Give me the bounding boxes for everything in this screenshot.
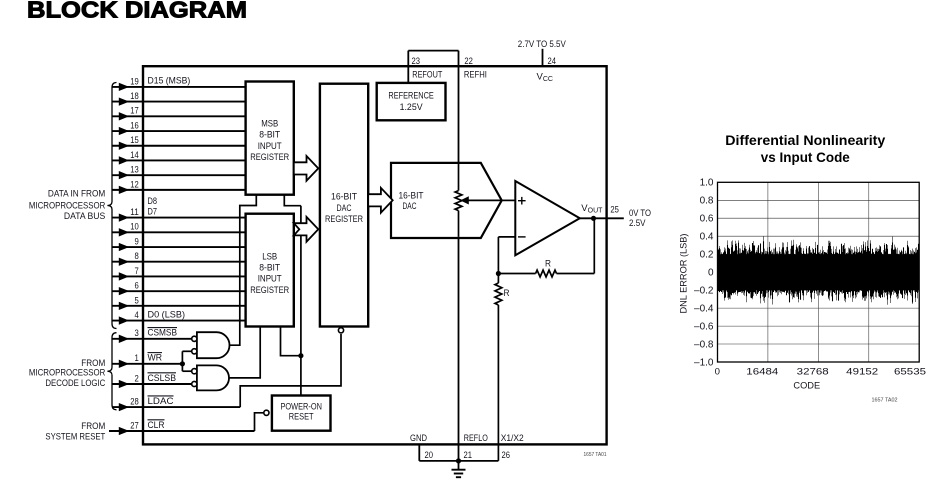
svg-text:5: 5 xyxy=(135,295,139,306)
svg-text:WR: WR xyxy=(148,353,163,364)
svg-text:0: 0 xyxy=(708,268,714,279)
svg-text:11: 11 xyxy=(130,207,139,218)
svg-text:vs Input Code: vs Input Code xyxy=(761,149,850,165)
svg-text:1.0: 1.0 xyxy=(700,178,714,189)
svg-text:REFLO: REFLO xyxy=(464,433,488,444)
svg-text:32768: 32768 xyxy=(797,367,829,378)
svg-text:8: 8 xyxy=(135,251,139,262)
svg-text:D7: D7 xyxy=(148,206,158,217)
svg-text:–0.4: –0.4 xyxy=(694,303,714,314)
svg-text:BLOCK DIAGRAM: BLOCK DIAGRAM xyxy=(27,0,247,23)
svg-text:65535: 65535 xyxy=(894,367,926,378)
svg-text:21: 21 xyxy=(464,450,473,461)
svg-text:12: 12 xyxy=(130,179,139,190)
svg-text:REFHI: REFHI xyxy=(464,70,487,81)
svg-text:R: R xyxy=(545,259,551,270)
svg-text:–0.8: –0.8 xyxy=(694,339,714,350)
svg-text:0.8: 0.8 xyxy=(700,196,714,207)
svg-text:CSLSB: CSLSB xyxy=(148,373,177,384)
svg-text:CLR: CLR xyxy=(148,420,165,431)
svg-text:DAC: DAC xyxy=(337,203,352,214)
svg-text:LDAC: LDAC xyxy=(148,396,174,407)
svg-text:2.5V: 2.5V xyxy=(629,218,646,229)
svg-text:2.7V TO 5.5V: 2.7V TO 5.5V xyxy=(518,39,567,50)
svg-text:VCC: VCC xyxy=(537,71,553,83)
svg-text:1.25V: 1.25V xyxy=(400,102,424,113)
svg-text:24: 24 xyxy=(548,56,557,67)
svg-text:0.6: 0.6 xyxy=(700,214,714,225)
svg-text:DATA BUS: DATA BUS xyxy=(64,211,105,222)
svg-text:D0 (LSB): D0 (LSB) xyxy=(148,309,186,320)
svg-text:26: 26 xyxy=(502,450,511,461)
svg-text:Differential Nonlinearity: Differential Nonlinearity xyxy=(725,132,885,148)
svg-text:16: 16 xyxy=(130,120,139,131)
svg-text:16-BIT: 16-BIT xyxy=(398,191,423,202)
svg-text:0.4: 0.4 xyxy=(700,232,714,243)
svg-text:22: 22 xyxy=(464,56,473,67)
svg-text:DECODE LOGIC: DECODE LOGIC xyxy=(45,378,105,389)
svg-text:–0.6: –0.6 xyxy=(694,321,714,332)
svg-text:FROM: FROM xyxy=(81,421,105,432)
svg-text:15: 15 xyxy=(130,135,139,146)
svg-text:17: 17 xyxy=(130,106,139,117)
svg-text:REFOUT: REFOUT xyxy=(412,70,442,81)
svg-text:INPUT: INPUT xyxy=(258,141,282,152)
svg-text:3: 3 xyxy=(135,328,139,339)
svg-text:CODE: CODE xyxy=(793,381,820,391)
svg-text:27: 27 xyxy=(130,420,139,431)
svg-text:6: 6 xyxy=(135,281,139,292)
svg-text:8-BIT: 8-BIT xyxy=(259,263,280,274)
svg-text:25: 25 xyxy=(610,205,619,216)
svg-text:–1.0: –1.0 xyxy=(694,357,714,368)
svg-text:0.2: 0.2 xyxy=(700,250,714,261)
svg-text:X1/X2: X1/X2 xyxy=(501,433,524,444)
svg-text:49152: 49152 xyxy=(846,367,878,378)
svg-text:REFERENCE: REFERENCE xyxy=(388,91,433,102)
svg-text:14: 14 xyxy=(130,150,139,161)
svg-text:CSMSB: CSMSB xyxy=(148,328,178,339)
svg-text:2: 2 xyxy=(135,373,139,384)
svg-text:19: 19 xyxy=(130,76,139,87)
svg-text:DAC: DAC xyxy=(403,201,417,212)
svg-text:REGISTER: REGISTER xyxy=(250,152,289,163)
svg-text:REGISTER: REGISTER xyxy=(325,214,363,225)
svg-text:20: 20 xyxy=(425,450,434,461)
svg-text:4: 4 xyxy=(135,310,139,321)
svg-text:SYSTEM RESET: SYSTEM RESET xyxy=(45,432,105,443)
svg-text:13: 13 xyxy=(130,165,139,176)
svg-text:16484: 16484 xyxy=(746,367,779,378)
svg-text:GND: GND xyxy=(410,433,427,444)
svg-text:18: 18 xyxy=(130,91,139,102)
svg-text:8-BIT: 8-BIT xyxy=(259,130,280,141)
svg-text:1657 TA02: 1657 TA02 xyxy=(872,398,898,404)
svg-text:D8: D8 xyxy=(148,196,158,207)
svg-text:1657 TA01: 1657 TA01 xyxy=(584,452,607,458)
svg-text:0: 0 xyxy=(715,367,720,378)
svg-text:R: R xyxy=(504,288,510,299)
svg-text:7: 7 xyxy=(135,266,139,277)
svg-text:DATA IN FROM: DATA IN FROM xyxy=(48,189,105,200)
svg-text:LSB: LSB xyxy=(262,251,277,262)
svg-text:–0.2: –0.2 xyxy=(694,286,714,297)
svg-text:16-BIT: 16-BIT xyxy=(331,192,357,203)
svg-text:MICROPROCESSOR: MICROPROCESSOR xyxy=(29,201,106,212)
svg-text:MSB: MSB xyxy=(261,119,278,130)
svg-text:REGISTER: REGISTER xyxy=(250,285,289,296)
svg-text:DNL ERROR (LSB): DNL ERROR (LSB) xyxy=(679,234,689,314)
svg-text:1: 1 xyxy=(135,353,139,364)
svg-text:28: 28 xyxy=(130,397,139,408)
svg-text:VOUT: VOUT xyxy=(581,203,603,215)
svg-text:9: 9 xyxy=(135,236,139,247)
svg-text:RESET: RESET xyxy=(289,411,314,422)
svg-text:23: 23 xyxy=(412,56,421,67)
svg-text:INPUT: INPUT xyxy=(258,274,282,285)
svg-text:D15 (MSB): D15 (MSB) xyxy=(148,76,191,87)
svg-text:10: 10 xyxy=(130,222,139,233)
